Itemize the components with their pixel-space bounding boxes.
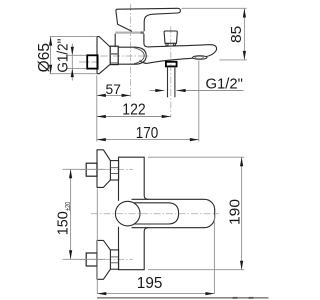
spout (side view) [140,45,217,64]
centerline handle vertical axis [130,4,132,97]
svg-text:57: 57 [106,82,121,97]
bottom escutcheon (plan view) [97,240,110,279]
centerline bottom inlet axis [80,258,134,260]
handle/body joint band [115,31,144,33]
body slab (plan view) [119,157,149,270]
wall nut (side view) [110,46,118,64]
centerline shower outlet axis [170,27,172,118]
handle lever (side view) [116,8,180,31]
dimension 150+-20 [54,169,105,259]
dimension Ø65 [36,37,96,74]
bottom inlet stub (plan view) [86,253,97,266]
svg-text:122: 122 [122,101,145,118]
top inlet stub (plan view) [86,163,97,176]
top wall nut (plan view) [110,161,118,180]
dimension 57 [97,82,131,97]
valve body (side view) [115,34,148,47]
dimension G1/2" left [55,39,87,81]
svg-text:G1/2": G1/2" [55,39,72,73]
aerator (side view) [193,56,207,60]
cartridge dome (side view) [118,47,146,64]
bottom wall nut (plan view) [110,250,118,269]
dimension 122 [97,101,171,118]
shower hose pipe G1/2 (side view) [168,66,175,97]
handle capsule (plan view) [134,203,179,224]
dimension 195 [97,189,214,296]
cartridge dome circle (plan view) [115,201,140,226]
svg-text:G1/2": G1/2" [205,75,243,92]
svg-text:85: 85 [228,26,245,43]
dimension 170 [97,61,199,143]
centerline spout axis [91,213,219,215]
centerline body axis [101,55,152,57]
shower hose nut (side view) [166,62,177,67]
wall escutcheon (side view) [97,37,110,74]
centerline top inlet axis [80,168,134,170]
page rule line at bottom [97,297,269,299]
svg-text:190: 190 [226,199,243,225]
svg-text:Ø65: Ø65 [36,43,53,72]
dimension 190 [148,157,244,270]
dimension 85 [182,8,247,60]
diverter knob (side view) [164,31,177,45]
top escutcheon (plan view) [97,150,110,188]
spout capsule (plan view) [132,199,215,227]
inlet pipe stub G1/2 (side view) [87,55,97,68]
svg-text:195: 195 [137,275,163,292]
centerline eccentric inlet axis [79,61,100,63]
svg-text:170: 170 [136,125,159,142]
dimension G1/2" shower [150,75,244,92]
